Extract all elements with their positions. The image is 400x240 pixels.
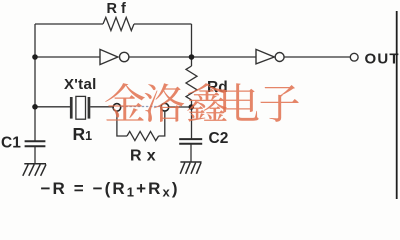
svg-text:C1: C1 — [1, 135, 21, 152]
wire right vertical upper — [191, 24, 193, 66]
wire terminal B to node — [169, 106, 192, 108]
terminal A circle — [113, 104, 121, 112]
terminal OUT circle — [350, 53, 358, 61]
wire right vertical lower — [191, 100, 193, 139]
wire C2 lead — [190, 144, 192, 161]
resistor Rd — [186, 66, 197, 100]
watermark 金洛鑫电子 — [105, 83, 299, 122]
watermark char 电 — [223, 83, 258, 121]
watermark char 洛 — [145, 83, 185, 122]
op-amp U1 inverter — [100, 49, 129, 64]
node junction dot left-upper — [32, 54, 38, 60]
resistor Rx — [127, 131, 159, 140]
wire crystal to terminal A — [90, 106, 113, 108]
svg-text:R1: R1 — [73, 124, 93, 144]
watermark char 鑫 — [187, 83, 226, 122]
svg-text:−R = −(R1+Rx): −R = −(R1+Rx) — [41, 179, 180, 199]
svg-text:X'tal: X'tal — [64, 76, 97, 93]
dashed link A-B — [121, 106, 160, 108]
watermark char 金 — [105, 83, 144, 121]
svg-text:C2: C2 — [209, 130, 229, 147]
wire U2 output — [284, 56, 350, 58]
wire top right segment — [134, 23, 192, 25]
node junction dot right-lower — [189, 104, 195, 110]
crystal X'tal — [70, 96, 90, 119]
watermark char 子 — [260, 85, 298, 122]
figure border right edge — [396, 11, 398, 199]
svg-text:R x: R x — [130, 147, 156, 164]
resistor Rf — [103, 17, 134, 30]
capacitor C1 — [25, 141, 46, 146]
wire C1 lead — [34, 147, 36, 163]
wire Rx right leg — [159, 111, 165, 136]
wire U1 input — [35, 56, 100, 58]
node junction dot left-lower — [32, 104, 38, 110]
svg-text:OUT: OUT — [365, 50, 400, 67]
svg-text:R f: R f — [107, 1, 127, 17]
wire Rx left leg — [117, 111, 127, 136]
node junction dot right-upper — [189, 54, 195, 60]
wire top left segment — [35, 23, 103, 25]
op-amp U2 inverter — [256, 49, 284, 64]
wire left vertical — [34, 24, 36, 141]
wire node to U2 input — [192, 56, 257, 58]
wire node to crystal — [35, 106, 70, 108]
ground for C1 — [23, 164, 46, 176]
ground for C2 — [180, 162, 201, 174]
capacitor C2 — [179, 139, 202, 144]
terminal B circle — [161, 103, 169, 111]
wire U1 output to node — [129, 56, 191, 58]
